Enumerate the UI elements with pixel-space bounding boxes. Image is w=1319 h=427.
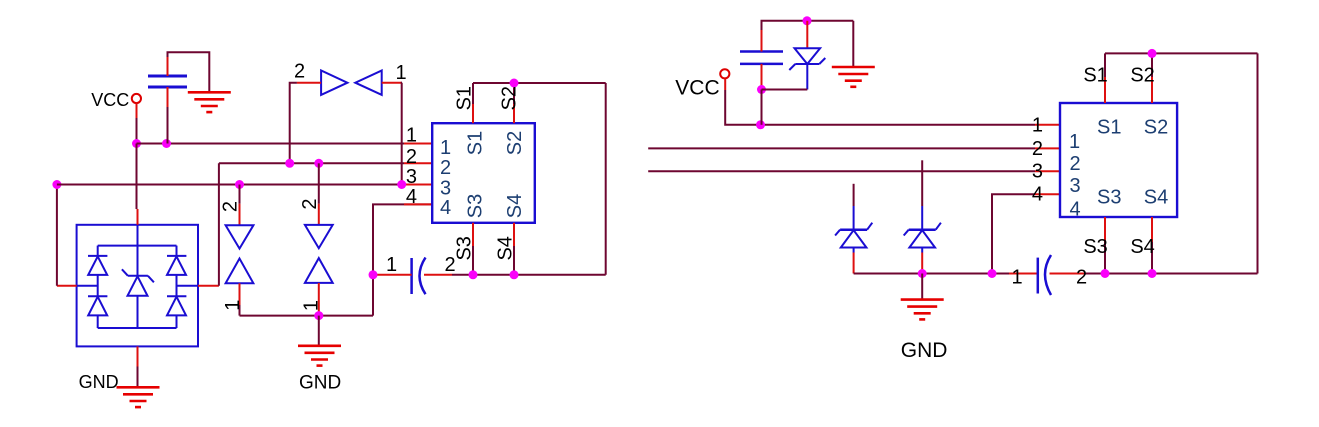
U2 wire S2 to top rail <box>513 83 515 104</box>
ground symbol (mid right) <box>901 300 944 320</box>
pin 4 stub of U2 <box>404 203 432 205</box>
U3 pin S2 top stub <box>1151 77 1153 103</box>
svg-text:S2: S2 <box>504 131 526 155</box>
svg-text:1: 1 <box>396 62 407 84</box>
svg-text:S3: S3 <box>454 236 476 260</box>
TVS pair right pin stub <box>382 82 402 84</box>
ground symbol (below U1) <box>117 387 160 407</box>
svg-text:4: 4 <box>406 186 417 208</box>
U1 left pin internal link <box>77 285 98 287</box>
capacitor C4 straight plate <box>1037 258 1040 294</box>
TVS stack A upper triangle <box>226 225 254 248</box>
diode D3 (U1 upper-right) <box>167 256 186 275</box>
wire pin3 net horizontal <box>57 184 404 186</box>
wire VCC net down to U1 top pin <box>136 144 138 210</box>
U1 right pin <box>198 285 219 287</box>
wire zener D7 top <box>853 184 855 206</box>
U1 right column mid link <box>176 275 178 296</box>
op-amp/IC U3 box <box>1060 103 1177 217</box>
component U1 outer box <box>77 225 198 347</box>
junction pin3 net far left <box>52 180 61 189</box>
ground symbol (top-left) <box>188 92 231 112</box>
TVS pair left pin stub <box>297 82 321 84</box>
pin 3 stub of U2 <box>404 184 432 186</box>
VCC port stub (left) <box>136 104 138 119</box>
zener D6 bottom link <box>806 64 808 90</box>
diode D4 (U1 lower-right) <box>167 296 186 315</box>
pin 3 stub of U3 <box>1035 170 1060 172</box>
svg-text:2: 2 <box>220 201 242 212</box>
junction C3 net/pin1 net <box>756 120 765 129</box>
stackA top pin stub <box>239 204 241 226</box>
C4 left pin stub <box>1009 273 1038 275</box>
wire bottom rail (left IC) <box>473 274 606 276</box>
capacitor C2 straight plate <box>410 258 413 294</box>
wire TVS pair right to pin3 net <box>401 83 403 185</box>
U3 pin S1 top stub <box>1104 77 1106 103</box>
pin 1 stub of U2 <box>404 143 432 145</box>
svg-text:4: 4 <box>440 197 451 219</box>
junction C3/zener bottom <box>757 85 766 94</box>
svg-text:2: 2 <box>299 198 321 209</box>
stackB bottom pin stub <box>318 283 320 316</box>
svg-text:S1: S1 <box>1083 65 1107 87</box>
svg-text:2: 2 <box>440 157 451 179</box>
VCC port circle (left) <box>132 94 141 103</box>
svg-text:GND: GND <box>299 372 341 393</box>
svg-text:1: 1 <box>222 300 244 311</box>
capacitor C1 bottom plate <box>148 86 187 89</box>
zener D7 <box>835 206 872 253</box>
wire GND net bottom <box>240 315 374 317</box>
svg-text:3: 3 <box>406 166 417 188</box>
U2 wire S1 to top rail <box>472 83 474 104</box>
svg-text:2: 2 <box>294 61 305 83</box>
U1 center wire lower <box>137 296 139 328</box>
wire bottom rail (right) <box>854 273 1009 275</box>
TVS stack A lower triangle <box>226 259 254 284</box>
junction capacitor C1 bottom / pin1 net <box>162 139 171 148</box>
C4 right pin stub <box>1050 273 1086 275</box>
wire U1 bottom pin to ground <box>137 367 139 388</box>
U1 left pin <box>57 285 77 287</box>
U3 wire S2 to top rail <box>1151 53 1153 77</box>
wire pin3 net (right) <box>648 170 1035 172</box>
pin 4 stub of U3 <box>1035 193 1060 195</box>
junction S4/bottom rail <box>510 270 519 279</box>
U1 bottom pin <box>137 346 139 366</box>
zener D5 (center of U1) <box>122 269 154 296</box>
U1 center wire upper <box>137 246 139 276</box>
svg-text:S4: S4 <box>504 194 526 218</box>
svg-text:4: 4 <box>1032 184 1043 206</box>
C3 bottom pin stub <box>761 64 763 90</box>
svg-text:3: 3 <box>1032 161 1043 183</box>
wire right loop (left IC) <box>605 83 607 275</box>
svg-text:4: 4 <box>1070 199 1081 221</box>
U3 pin S4 bottom stub <box>1151 217 1153 242</box>
capacitor C2 curved plate <box>420 258 426 295</box>
svg-text:S1: S1 <box>454 86 476 110</box>
svg-text:2: 2 <box>1076 267 1087 289</box>
junction VCC/pin1 net <box>132 139 141 148</box>
U1 left column mid link <box>97 275 99 296</box>
C3 top pin stub <box>761 30 763 52</box>
wire zener D8 top <box>921 160 923 206</box>
junction S4/bottom rail (right) <box>1148 269 1157 278</box>
svg-text:S3: S3 <box>1097 187 1121 209</box>
wire to ground (right) <box>921 274 923 300</box>
U3 wire S3 to bottom rail <box>1104 242 1106 274</box>
svg-text:VCC: VCC <box>675 76 719 99</box>
zener D6 (right top) <box>789 48 825 70</box>
wire top rail (left IC) <box>473 82 606 84</box>
capacitor C3 bottom plate <box>740 63 783 66</box>
U1 inner top rail <box>98 245 177 247</box>
junction pin3/stackA <box>235 180 244 189</box>
junction pin4/bottom rail (right) <box>988 269 997 278</box>
wire stackB top <box>318 163 320 204</box>
junction S3/bottom rail <box>469 270 478 279</box>
wire VCC port down to pin1 net <box>136 118 138 144</box>
stackB top pin stub <box>318 204 320 225</box>
capacitor C1 top pin stub <box>167 57 169 76</box>
pin 1 stub of U3 <box>1035 124 1060 126</box>
U1 top pin <box>137 209 139 225</box>
U1 right column upper link <box>176 246 178 256</box>
U2 pin S2 top stub <box>513 104 515 123</box>
wire pin2 net (right) <box>648 147 1035 149</box>
U1 right pin internal link <box>177 285 199 287</box>
wire zener D6 to C3 junction <box>762 89 808 91</box>
wire pin4 net (right) <box>992 194 1035 273</box>
U1 left column lower link <box>97 315 99 328</box>
U1 right column lower link <box>176 315 178 328</box>
TVS diode pair (top) left triangle <box>321 71 347 95</box>
wire stackA bottom <box>239 305 241 316</box>
pin 2 stub of U3 <box>1035 147 1060 149</box>
TVS stack B upper triangle <box>305 225 333 248</box>
TVS stack B lower triangle <box>305 258 333 283</box>
VCC port circle (right) <box>720 69 729 78</box>
junction top rail/zener D6 <box>803 16 812 25</box>
junction S2/top rail (right) <box>1148 49 1157 58</box>
VCC port stub (right) <box>724 79 726 90</box>
U2 pin S1 top stub <box>472 104 474 123</box>
junction pin3/TVS right <box>397 180 406 189</box>
wire bottom rail (right IC) <box>1105 273 1258 275</box>
svg-text:1: 1 <box>1012 267 1023 289</box>
svg-text:S2: S2 <box>1130 65 1154 87</box>
wire top rail to ground (right) <box>852 21 854 67</box>
diode D1 (U1 upper-left) <box>88 256 107 275</box>
op-amp/IC U2 box <box>432 123 535 223</box>
pin 2 stub of U2 <box>404 162 432 164</box>
U2 pin S4 bottom stub <box>513 223 515 246</box>
wire right loop (right IC) <box>1257 53 1259 273</box>
svg-text:1: 1 <box>1069 131 1080 153</box>
U2 wire S4 to bottom rail <box>513 246 515 275</box>
ground symbol (below stacks) <box>298 346 341 366</box>
wire pin4 net to C2 <box>373 274 377 276</box>
svg-text:S3: S3 <box>464 194 486 218</box>
wire C1 bottom to pin1 net <box>167 107 169 144</box>
wire U1 right pin up to pin2 net <box>218 163 220 285</box>
svg-text:1: 1 <box>1032 114 1043 136</box>
wire pin1 net horizontal <box>137 143 405 145</box>
svg-text:3: 3 <box>1070 175 1081 197</box>
U3 wire S1 to top rail <box>1104 53 1106 77</box>
zener D7 bottom stub <box>853 253 855 274</box>
wire C1 top to ground <box>168 52 210 92</box>
wire to ground (stacks) <box>318 316 320 346</box>
wire pin2 net horizontal <box>219 162 404 164</box>
diode D2 (U1 lower-left) <box>88 296 107 315</box>
capacitor C3 top plate <box>740 50 783 53</box>
zener D6 top stub <box>806 21 808 48</box>
wire C2 to S3 net <box>452 274 473 276</box>
svg-text:1: 1 <box>301 300 323 311</box>
svg-text:S1: S1 <box>464 131 486 155</box>
TVS diode pair (top) right triangle <box>355 71 381 95</box>
svg-text:1: 1 <box>386 254 397 276</box>
zener D8 <box>904 206 941 253</box>
junction S3/bottom rail (right) <box>1101 269 1110 278</box>
svg-text:GND: GND <box>901 339 948 362</box>
junction pin2/stackB <box>314 159 323 168</box>
svg-text:S1: S1 <box>1097 117 1121 139</box>
svg-text:S4: S4 <box>1130 236 1154 258</box>
svg-text:2: 2 <box>1070 153 1081 175</box>
U2 pin S3 bottom stub <box>472 223 474 246</box>
wire stackA top <box>239 185 241 204</box>
svg-text:VCC: VCC <box>91 90 129 110</box>
capacitor C1 top plate <box>148 75 187 78</box>
junction pin2/TVS <box>285 159 294 168</box>
svg-text:2: 2 <box>1032 138 1043 160</box>
svg-text:1: 1 <box>440 137 451 159</box>
wire VCC to pin1 net (right) <box>725 90 1035 125</box>
U3 wire S4 to bottom rail <box>1151 242 1153 274</box>
junction S2/top rail <box>510 79 519 88</box>
svg-text:S4: S4 <box>495 236 517 260</box>
junction GND net <box>314 311 323 320</box>
C2 right pin stub <box>424 274 452 276</box>
wire TVS pair left to pin2 net <box>290 83 297 164</box>
svg-text:2: 2 <box>406 146 417 168</box>
wire pin4 net <box>373 204 432 315</box>
U1 left column upper link <box>97 246 99 256</box>
capacitor C1 bottom pin stub <box>167 87 169 107</box>
wire C4 to S3 (right) <box>1085 273 1105 275</box>
wire top rail (right IC) <box>1105 52 1258 54</box>
wire C3 junction down to pin1 net <box>761 90 763 125</box>
C2 left pin stub <box>377 274 412 276</box>
U1 center link top <box>137 225 139 246</box>
capacitor C4 curved plate <box>1045 255 1051 295</box>
svg-text:GND: GND <box>79 372 119 392</box>
U3 pin S3 bottom stub <box>1104 217 1106 242</box>
zener D8 bottom stub <box>921 253 923 274</box>
junction ground tap (right) <box>918 269 927 278</box>
svg-text:S3: S3 <box>1083 236 1107 258</box>
U1 inner bottom rail <box>98 327 177 329</box>
svg-text:S2: S2 <box>499 86 521 110</box>
svg-text:1: 1 <box>406 125 417 147</box>
U2 wire S3 to bottom rail <box>472 246 474 275</box>
wire C3 top corner <box>762 21 854 30</box>
wire U1 left pin up to pin3 net <box>56 185 58 286</box>
ground symbol (top right) <box>832 67 875 87</box>
stackA bottom pin stub <box>239 283 241 305</box>
svg-text:S2: S2 <box>1144 117 1168 139</box>
junction pin4/C2 <box>369 270 378 279</box>
svg-text:S4: S4 <box>1144 187 1168 209</box>
